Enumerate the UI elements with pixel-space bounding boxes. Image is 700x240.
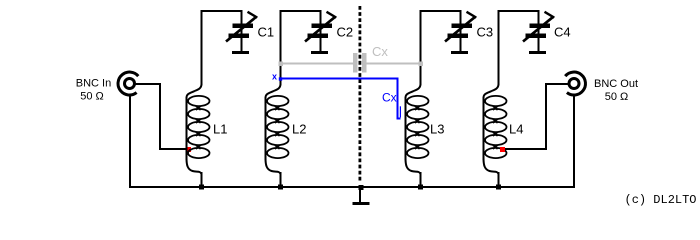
node x (blue junction dot) (279, 77, 282, 80)
svg-text:(c) DL2LTO: (c) DL2LTO (625, 193, 697, 207)
capacitor C2 mid+bottom lead (320, 28, 322, 34)
capacitor C2 top lead (320, 10, 322, 24)
wire BNC Out shield to ground rail (573, 95, 575, 187)
capacitor C1 mid+bottom lead (241, 28, 243, 34)
svg-text:L3: L3 (430, 121, 444, 136)
BNC Out connector center pin circle (569, 79, 579, 89)
capacitor C1 trimmer arrow (226, 17, 257, 42)
svg-text:Cx: Cx (372, 44, 388, 59)
svg-text:C1: C1 (258, 25, 275, 40)
cell 3 top wire (420, 10, 462, 12)
capacitor Cx coupling wire (blue) (282, 79, 400, 119)
node tap L1 (red dot) (186, 147, 191, 152)
capacitor C1 terminal bar (232, 51, 249, 54)
cell 2 top vertical wire (280, 11, 282, 85)
junction dot gray right (419, 62, 424, 67)
svg-text:50 Ω: 50 Ω (80, 91, 104, 103)
capacitor C1 top lead (241, 10, 243, 24)
cell 4 top wire (498, 10, 540, 12)
capacitor C4 terminal bar (529, 51, 546, 54)
BNC Out connector outer shield arc (565, 72, 585, 95)
svg-text:L2: L2 (292, 121, 306, 136)
shield partition dashed line (358, 6, 361, 181)
junction dot cell 1 on ground rail (199, 185, 204, 190)
capacitor C4 top plate (530, 24, 551, 29)
capacitor C4 bottom plate (526, 34, 547, 39)
inductor L3 (406, 84, 429, 187)
cell 2 top wire (280, 10, 322, 12)
inductor L2 (266, 84, 289, 187)
svg-text:L4: L4 (509, 121, 523, 136)
junction dot cell 2 on ground rail (278, 185, 283, 190)
junction dot cell 4 on ground rail (496, 185, 501, 190)
svg-text:BNC In: BNC In (76, 78, 111, 90)
svg-text:C2: C2 (337, 25, 354, 40)
capacitor C4 mid+bottom lead (538, 28, 540, 34)
junction dot gray left (279, 62, 284, 67)
cell 4 top vertical wire (498, 11, 500, 85)
cell 3 top vertical wire (420, 11, 422, 85)
capacitor C4 top lead (538, 10, 540, 24)
inductor L4 (484, 84, 507, 187)
BNC In connector outer shield arc (118, 72, 138, 95)
inductor L1 (187, 84, 210, 187)
svg-text:C3: C3 (477, 25, 494, 40)
capacitor Cx (alternate, gray) left wire (281, 63, 354, 65)
svg-text:Cx: Cx (382, 91, 397, 105)
svg-text:BNC Out: BNC Out (594, 78, 638, 90)
capacitor C2 top plate (312, 24, 333, 29)
capacitor C3 trimmer arrow (445, 17, 476, 42)
node tap L4 (red dot) (500, 147, 505, 152)
capacitor C3 top lead (460, 10, 462, 24)
capacitor C1 top plate (233, 24, 254, 29)
svg-text:C4: C4 (554, 25, 571, 40)
BNC In connector center pin circle (125, 79, 135, 89)
svg-text:x: x (272, 71, 277, 81)
cell 1 top vertical wire (201, 11, 203, 85)
wire BNC In shield to ground rail (129, 95, 131, 187)
capacitor C1 bottom plate (229, 34, 250, 39)
cell 1 top wire (201, 10, 243, 12)
ground symbol (359, 188, 361, 203)
capacitor C4 trimmer arrow (523, 17, 554, 42)
svg-text:L1: L1 (213, 121, 227, 136)
capacitor C2 trimmer arrow (305, 17, 336, 42)
capacitor C3 mid+bottom lead (460, 28, 462, 34)
capacitor C2 bottom plate (308, 34, 329, 39)
capacitor Cx (alternate, gray) right wire (366, 63, 421, 65)
capacitor C3 bottom plate (448, 34, 469, 39)
capacitor C3 terminal bar (451, 51, 468, 54)
wire BNC Out pin to tap corner (504, 84, 569, 149)
capacitor C3 top plate (452, 24, 473, 29)
capacitor Cx (alternate, gray) plates (353, 53, 358, 73)
junction dot cell 3 on ground rail (418, 185, 423, 190)
svg-text:50 Ω: 50 Ω (605, 91, 629, 103)
capacitor Cx coupling wire thin end (blue) (399, 106, 401, 117)
capacitor C2 terminal bar (311, 51, 328, 54)
ground rail wire (129, 186, 575, 188)
junction dot ground (359, 185, 364, 190)
wire BNC In pin to tap corner (135, 84, 187, 149)
